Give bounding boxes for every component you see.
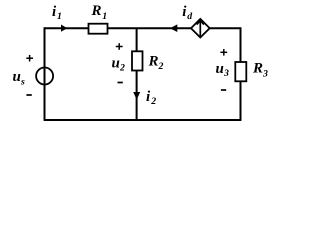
svg-text:u: u	[216, 61, 224, 77]
plus sign of us	[26, 57, 33, 59]
dependent current source diamond	[191, 19, 210, 38]
plus sign of u2	[116, 46, 123, 48]
dependent source internal up-arrow	[199, 20, 201, 36]
minus sign of us	[26, 94, 31, 96]
resistor R3	[235, 62, 246, 81]
svg-text:s: s	[20, 76, 25, 87]
svg-text:u: u	[13, 69, 21, 85]
svg-text:d: d	[187, 11, 193, 22]
svg-text:2: 2	[119, 63, 125, 74]
current arrow i1	[61, 25, 67, 32]
svg-text:3: 3	[262, 69, 268, 80]
current arrow i2	[133, 92, 140, 100]
svg-text:2: 2	[150, 96, 156, 107]
svg-text:1: 1	[102, 11, 107, 22]
svg-text:3: 3	[223, 68, 229, 79]
voltage source us circle	[36, 68, 53, 85]
svg-text:R: R	[91, 3, 102, 19]
wire middle branch	[136, 28, 138, 120]
current arrow id	[170, 24, 177, 32]
minus sign of u2	[118, 82, 123, 84]
minus sign of u3	[221, 89, 226, 91]
svg-text:i: i	[146, 89, 151, 105]
svg-text:2: 2	[158, 61, 164, 72]
wire left branch	[44, 27, 46, 120]
svg-text:R: R	[252, 61, 263, 77]
svg-text:R: R	[148, 54, 159, 70]
svg-text:u: u	[112, 56, 120, 72]
wire top: left corner to right corner	[45, 27, 241, 29]
wire right branch	[240, 27, 242, 120]
plus sign of u3	[220, 51, 227, 53]
resistor R2	[132, 51, 143, 70]
svg-text:1: 1	[57, 11, 62, 22]
resistor R1	[89, 24, 108, 34]
wire bottom	[44, 119, 242, 121]
